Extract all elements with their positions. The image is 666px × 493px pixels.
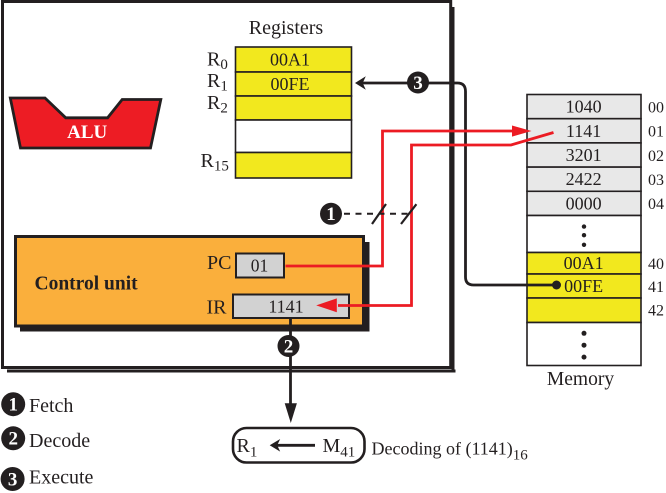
svg-text:2422: 2422 [566,169,602,189]
svg-text:42: 42 [648,303,664,320]
svg-text:00: 00 [648,99,664,116]
svg-text:Memory: Memory [547,369,614,390]
wire: memory cell 1141 to IR (red) [316,133,553,313]
wire: PC to memory address 01 (red) [286,126,532,267]
memory array [527,95,641,391]
svg-text:R2: R2 [207,92,228,117]
step badge 3 on wire [407,72,429,94]
svg-text:R1: R1 [207,70,228,95]
svg-text:01: 01 [648,124,664,141]
svg-text:0000: 0000 [566,193,602,213]
svg-text:03: 03 [648,172,664,189]
svg-text:ALU: ALU [67,122,107,143]
wire: memory M41 to register R1 (black, execute path) [355,76,561,289]
svg-text:Decode: Decode [29,430,90,452]
step badge 1 with dashed pointer [320,203,409,225]
svg-text:1: 1 [326,204,336,225]
register file (Registers) [236,17,352,178]
step badge 2 on wire [278,335,300,357]
CPU outer box [3,2,456,373]
svg-text:00FE: 00FE [270,74,309,94]
svg-text:1: 1 [8,395,18,416]
ALU U1 [10,98,161,148]
bus-width slash on red wire 2 [401,204,416,224]
svg-text:2: 2 [284,336,294,357]
svg-text:Control unit: Control unit [35,274,139,295]
PC register [207,252,284,278]
svg-text:40: 40 [648,256,664,273]
svg-text:41: 41 [648,279,664,296]
svg-text:Fetch: Fetch [29,395,73,417]
svg-text:2: 2 [8,429,18,450]
svg-text:PC: PC [207,252,231,274]
IR register [207,295,350,319]
svg-text:00A1: 00A1 [270,50,310,70]
svg-text:Execute: Execute [29,467,94,489]
svg-text:01: 01 [251,256,269,276]
svg-text:00A1: 00A1 [564,253,604,273]
svg-text:R15: R15 [201,150,229,175]
wire: IR down to decoder (black) [285,319,297,424]
svg-text:3: 3 [8,469,18,490]
svg-text:Decoding of (1141)16: Decoding of (1141)16 [372,439,529,464]
legend step 2 Decode [1,426,90,452]
svg-text:3: 3 [413,73,423,94]
legend step 3 Execute [1,467,94,492]
svg-text:1040: 1040 [566,97,602,117]
svg-text:04: 04 [648,196,664,213]
control unit [16,237,370,332]
svg-text:3201: 3201 [566,145,602,165]
decoder result box R1 <- M41 [233,428,365,463]
svg-text:1141: 1141 [268,296,303,316]
svg-text:02: 02 [648,148,664,165]
svg-text:Registers: Registers [249,17,324,39]
legend step 1 Fetch [1,392,73,417]
svg-text:00FE: 00FE [564,276,603,296]
svg-text:IR: IR [207,297,228,319]
svg-text:1141: 1141 [566,121,601,141]
bus-width slash on red wire 1 [372,204,386,224]
